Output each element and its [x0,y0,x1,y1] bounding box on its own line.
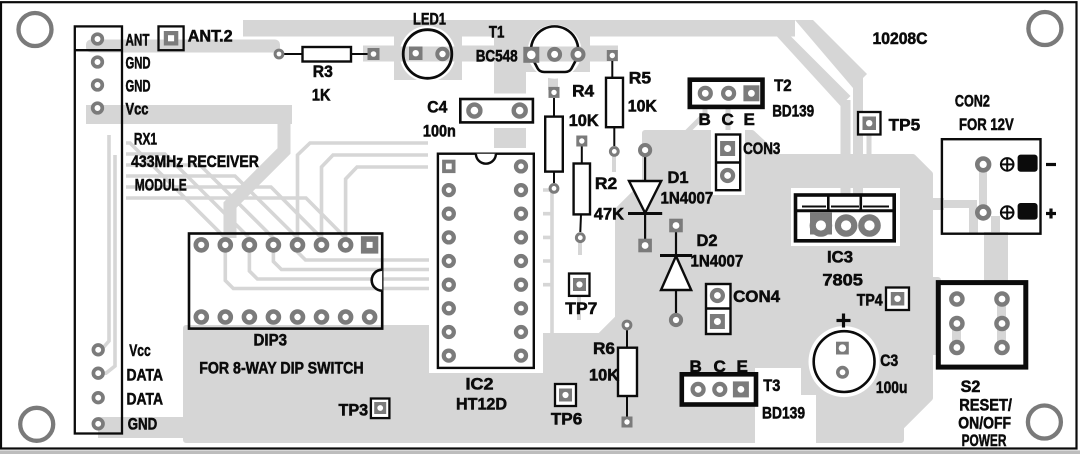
svg-text:GND: GND [128,415,158,434]
svg-text:RX1: RX1 [134,129,157,148]
svg-text:Vcc: Vcc [126,100,149,119]
svg-text:C: C [714,357,726,376]
svg-text:47K: 47K [594,204,625,223]
svg-text:BD139: BD139 [762,403,805,422]
svg-text:B: B [690,357,702,376]
svg-text:FOR 12V: FOR 12V [959,115,1014,134]
svg-text:10K: 10K [569,111,600,130]
svg-text:BD139: BD139 [772,102,814,121]
svg-text:1N4007: 1N4007 [661,188,714,207]
svg-text:POWER: POWER [962,431,1007,450]
svg-text:DATA: DATA [127,390,164,409]
svg-text:1N4007: 1N4007 [691,252,744,271]
svg-text:E: E [737,357,748,376]
svg-text:BC548: BC548 [476,47,518,66]
svg-text:C3: C3 [880,351,898,370]
svg-text:GND: GND [126,77,151,96]
svg-text:Vcc: Vcc [129,341,151,360]
svg-text:CON2: CON2 [955,91,990,110]
svg-text:TP4: TP4 [857,291,883,310]
svg-text:DIP3: DIP3 [254,330,288,349]
svg-text:1K: 1K [312,85,331,104]
svg-text:10208C: 10208C [873,29,928,48]
svg-text:CON3: CON3 [743,139,780,158]
svg-text:D2: D2 [697,231,718,250]
svg-text:S2: S2 [961,377,981,396]
svg-text:TP3: TP3 [339,400,369,419]
svg-text:T2: T2 [774,76,792,95]
svg-text:ANT: ANT [126,31,150,50]
svg-text:FOR 8-WAY DIP SWITCH: FOR 8-WAY DIP SWITCH [199,358,363,377]
svg-text:C4: C4 [427,98,447,117]
svg-text:ON/OFF: ON/OFF [958,414,1011,433]
svg-text:433MHz RECEIVER: 433MHz RECEIVER [131,152,259,171]
svg-text:DATA: DATA [127,366,164,385]
svg-text:R4: R4 [572,82,595,101]
svg-text:T1: T1 [489,22,505,41]
svg-text:100u: 100u [876,378,908,397]
svg-text:IC2: IC2 [466,375,494,394]
svg-text:T3: T3 [763,376,780,395]
svg-text:R3: R3 [313,62,333,81]
svg-text:R2: R2 [595,174,617,193]
svg-text:ANT.2: ANT.2 [188,27,233,46]
svg-text:D1: D1 [668,168,689,187]
svg-text:7805: 7805 [822,271,863,290]
svg-text:100n: 100n [423,121,456,140]
svg-text:LED1: LED1 [413,10,446,29]
svg-text:CON4: CON4 [733,287,781,306]
svg-text:R5: R5 [629,69,651,88]
svg-text:TP5: TP5 [889,116,921,135]
svg-text:GND: GND [126,54,151,73]
svg-text:TP7: TP7 [565,299,597,318]
svg-text:IC3: IC3 [827,248,853,267]
svg-text:HT12D: HT12D [456,395,507,414]
svg-text:RESET/: RESET/ [959,396,1012,415]
svg-text:10K: 10K [628,97,658,116]
svg-text:E: E [744,110,755,129]
svg-text:MODULE: MODULE [135,176,187,195]
svg-text:C: C [722,110,734,129]
svg-text:10K: 10K [589,365,620,384]
svg-text:R6: R6 [593,339,615,358]
svg-text:TP6: TP6 [551,409,582,428]
svg-text:B: B [699,110,711,129]
